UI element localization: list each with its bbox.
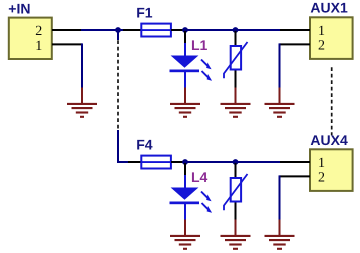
- LED L1 body: [170, 43, 200, 89]
- LED L1 emission arrow 1: [201, 60, 212, 70]
- AUX1 pin 1 lead: [280, 29, 310, 31]
- bottom varistor top pin: [235, 163, 237, 178]
- fuse F1 body: [141, 24, 172, 37]
- fuse F4 right pin: [171, 161, 184, 163]
- svg-text:L4: L4: [191, 169, 208, 185]
- ground under AUX1 pin2: [265, 88, 295, 117]
- fuse F1 right pin: [171, 29, 184, 31]
- svg-text:+IN: +IN: [8, 1, 30, 17]
- fuse F1 designator: [136, 4, 153, 20]
- ground under LED L1: [170, 88, 200, 117]
- wire AUX4 pin2 to ground: [279, 175, 281, 220]
- bottom varistor body: [224, 174, 248, 210]
- AUX4 pin 2 lead: [280, 175, 311, 177]
- LED L4 designator: [191, 169, 208, 185]
- svg-text:1: 1: [35, 39, 42, 54]
- varistor bottom pin: [235, 71, 237, 89]
- LED L4 body: [170, 175, 200, 221]
- junction node after F4: [182, 159, 188, 165]
- AUX1 pin number 2: [318, 39, 325, 54]
- varistor body: [224, 42, 248, 78]
- ground under varistor: [221, 88, 251, 117]
- wire F1 to AUX1: [184, 29, 281, 31]
- LED L1 emission arrow 2: [202, 71, 213, 81]
- LED L4 emission arrow 2: [202, 203, 213, 213]
- LED L4 emission arrow 1: [201, 192, 212, 202]
- svg-text:1: 1: [318, 156, 325, 171]
- LED L1 designator: [191, 37, 208, 53]
- fuse F1 left pin: [123, 29, 141, 31]
- wire pin1 down to ground: [81, 43, 83, 88]
- ground under +IN pin1: [67, 88, 97, 117]
- LED L4 top pin: [184, 163, 186, 176]
- dashed continuation line right: [331, 67, 333, 135]
- varistor top pin: [235, 31, 237, 46]
- wire pin2 to fuse F1: [81, 29, 124, 31]
- +IN pin 2 lead: [52, 29, 82, 31]
- +IN pin number 2: [35, 24, 42, 39]
- dashed continuation line left: [117, 40, 119, 131]
- svg-text:AUX1: AUX1: [310, 0, 348, 16]
- connector +IN body: [9, 18, 52, 59]
- svg-text:AUX4: AUX4: [310, 132, 348, 148]
- ground under AUX4 pin2: [265, 220, 295, 249]
- fuse F4 designator: [136, 136, 153, 152]
- AUX4 pin number 2: [318, 171, 325, 186]
- fuse F4 left pin: [128, 161, 141, 163]
- wire vertical into bottom row: [118, 130, 129, 162]
- junction node after F1: [182, 27, 188, 33]
- LED L1 top pin: [184, 31, 186, 44]
- connector AUX1 label: [310, 0, 348, 16]
- connector +IN label: [8, 1, 30, 17]
- +IN pin 1 lead: [52, 43, 82, 45]
- junction node at x118: [115, 27, 121, 33]
- connector AUX4 body: [310, 149, 353, 191]
- fuse F4 body: [141, 156, 172, 169]
- svg-text:F1: F1: [136, 4, 153, 20]
- wire F4 to AUX4: [184, 161, 281, 163]
- svg-text:1: 1: [318, 24, 325, 39]
- wire AUX1 pin2 to ground: [279, 43, 281, 88]
- ground under LED L4: [170, 220, 200, 249]
- AUX1 pin number 1: [318, 24, 325, 39]
- svg-text:L1: L1: [191, 37, 208, 53]
- junction node at varistor: [233, 27, 239, 33]
- junction node at bottom varistor: [233, 159, 239, 165]
- connector AUX4 label: [310, 132, 348, 148]
- bottom varistor bottom pin: [235, 203, 237, 221]
- AUX4 pin 1 lead: [280, 161, 310, 163]
- ground under bottom varistor: [221, 220, 251, 249]
- +IN pin number 1: [35, 39, 42, 54]
- AUX1 pin 2 lead: [280, 43, 311, 45]
- svg-text:2: 2: [35, 24, 42, 39]
- svg-text:2: 2: [318, 39, 325, 54]
- connector AUX1 body: [310, 17, 353, 59]
- wire stub below junction: [117, 31, 119, 40]
- AUX4 pin number 1: [318, 156, 325, 171]
- svg-text:2: 2: [318, 171, 325, 186]
- svg-text:F4: F4: [136, 136, 153, 152]
